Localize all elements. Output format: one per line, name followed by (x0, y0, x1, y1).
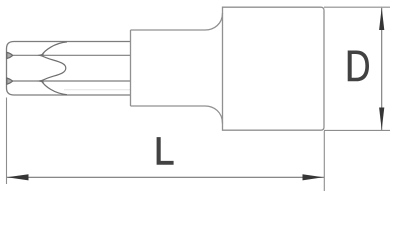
D dimension line (381, 8, 383, 130)
bit faint flute root line (64, 89, 131, 91)
L extension line left (6, 98, 8, 185)
bit central lobe bullet (41, 55, 66, 81)
L arrow right (303, 174, 324, 180)
bit flute line lower (13, 80, 131, 82)
D extension line top (324, 6, 390, 8)
bit tip beak upper (7, 52, 13, 58)
bit body outline (7, 42, 131, 96)
D arrow up (379, 8, 384, 30)
D arrow down (379, 108, 384, 130)
socket body (223, 7, 325, 130)
bit cusp arrow upper (37, 54, 45, 58)
label D (348, 51, 369, 82)
holder collar (131, 13, 223, 124)
D extension line bottom (324, 129, 390, 131)
L dimension line (7, 176, 324, 178)
bit tip taper curve to top edge (42, 42, 68, 55)
L extension line right (323, 131, 325, 191)
bit tip taper curve to bottom edge (42, 81, 68, 95)
bit flute line upper (13, 54, 131, 56)
L arrow left (7, 174, 29, 180)
bit tip beak lower (7, 78, 13, 84)
label L (157, 137, 174, 165)
bit cusp arrow lower (37, 79, 45, 83)
